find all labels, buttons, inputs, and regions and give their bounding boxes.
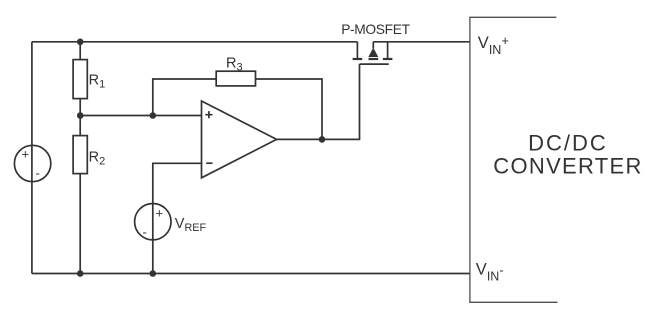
wire drain to converter [373, 41, 469, 43]
svg-text:VIN-: VIN- [476, 260, 504, 283]
wire R1 top lead [79, 42, 81, 60]
wire R1 bottom to R2 top [79, 99, 81, 136]
wire top rail [32, 41, 358, 43]
svg-text:R3: R3 [226, 55, 243, 73]
node junction dot output / gate [319, 136, 326, 143]
svg-text:+: + [156, 206, 164, 221]
svg-text:CONVERTER: CONVERTER [493, 153, 642, 178]
wire bottom rail [32, 273, 470, 275]
svg-text:+: + [22, 147, 30, 162]
svg-text:P-MOSFET: P-MOSFET [341, 22, 410, 37]
wire R2 bottom lead [79, 174, 81, 274]
svg-text:VIN+: VIN+ [478, 33, 509, 57]
wire op-amp output to gate [277, 64, 360, 139]
wire left rail [31, 42, 33, 274]
svg-text:R2: R2 [89, 149, 106, 167]
transistor Q1 drain contact tick [383, 58, 393, 60]
wire R3 left branch [153, 79, 216, 116]
svg-text:DC/DC: DC/DC [528, 130, 608, 155]
node junction dot bottom rail / VREF [150, 270, 157, 277]
svg-text:-: - [143, 225, 147, 240]
resistor R2 [73, 136, 87, 174]
svg-text:VREF: VREF [175, 216, 207, 234]
resistor R1 [73, 60, 87, 99]
label op-amp minus input [206, 162, 212, 164]
resistor R3 [216, 71, 255, 86]
voltage source VREF [135, 204, 171, 240]
transistor Q1 source terminal [356, 42, 358, 58]
op-amp U1 triangle [202, 101, 277, 178]
voltage source V1 [14, 145, 50, 181]
node A junction dot R1/R2 [77, 112, 84, 119]
node junction dot bottom rail / R2 [77, 270, 84, 277]
label op-amp plus input [205, 111, 212, 118]
DC/DC converter box [470, 17, 558, 302]
wire R3 right branch down to output [256, 79, 323, 139]
transistor Q1 body stub [372, 42, 374, 49]
transistor Q1 body arrow [368, 48, 378, 57]
wire op-amp inverting input from VREF [153, 163, 202, 273]
transistor Q1 drain terminal [387, 42, 389, 58]
transistor Q1 P-MOSFET gate bar [360, 63, 389, 65]
node junction dot R3 branch [150, 112, 157, 119]
node junction dot top rail / R1 [77, 39, 84, 46]
svg-text:-: - [36, 166, 40, 181]
svg-text:R1: R1 [89, 72, 106, 90]
transistor Q1 source contact tick [353, 58, 363, 60]
wire node A horizontal (to op-amp + input) [80, 115, 201, 117]
transistor Q1 body contact tick [369, 58, 379, 60]
